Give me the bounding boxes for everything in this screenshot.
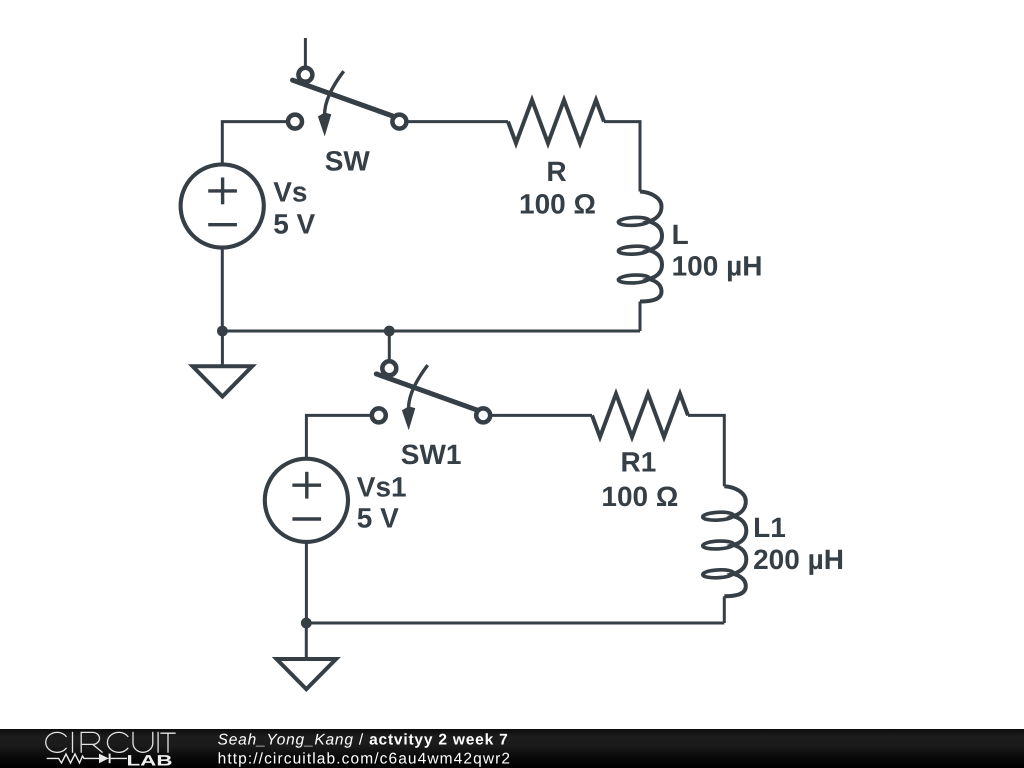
ground G1 bbox=[193, 366, 253, 396]
svg-text:100 Ω: 100 Ω bbox=[519, 189, 596, 220]
svg-text:5 V: 5 V bbox=[273, 209, 315, 240]
wire: resistor R to top-right corner down to inductor L bbox=[604, 122, 640, 192]
svg-text:200 µH: 200 µH bbox=[753, 544, 844, 575]
svg-text:100 Ω: 100 Ω bbox=[601, 481, 678, 512]
wire: inductor L1 to bottom wire bbox=[723, 596, 726, 623]
SW1 actuation arc bbox=[409, 365, 428, 408]
svg-text:R: R bbox=[546, 156, 566, 187]
svg-text:SW: SW bbox=[325, 146, 371, 177]
wire: bottom wire of circuit 2 bbox=[306, 622, 724, 625]
SW1 top terminal circle bbox=[382, 361, 396, 375]
svg-text:Vs: Vs bbox=[273, 176, 307, 207]
svg-text:SW1: SW1 bbox=[401, 439, 462, 470]
SW1 blade bbox=[376, 374, 478, 410]
SW arrowhead bbox=[318, 113, 331, 137]
CircuitLab logo: CIRCUIT bbox=[46, 732, 175, 752]
wire: left horizontal from corner to SW1 left terminal bbox=[306, 415, 371, 459]
wire: Vs1 bottom to node bbox=[305, 542, 308, 623]
SW actuation arc bbox=[325, 71, 344, 114]
ground G1 stem bbox=[221, 331, 224, 366]
svg-text:Vs1: Vs1 bbox=[357, 472, 407, 503]
wire: resistor R1 to corner down to inductor L1 bbox=[688, 415, 724, 486]
ground G2 bbox=[277, 659, 337, 689]
SW1 left terminal circle bbox=[372, 408, 386, 422]
wire: stub above switch SW bbox=[304, 38, 307, 67]
inductor L bbox=[618, 192, 662, 302]
resistor R bbox=[508, 100, 604, 143]
SW1 arrowhead bbox=[402, 406, 415, 430]
logo schematic: wire resistor diode bbox=[47, 754, 127, 764]
wire: Vs bottom to node bbox=[221, 247, 224, 331]
SW blade bbox=[293, 80, 395, 116]
svg-text:LAB: LAB bbox=[127, 753, 173, 768]
wire: node B down to SW1 bbox=[388, 331, 391, 361]
node C (junction dot circuit 2) bbox=[301, 618, 312, 629]
voltage source Vs1 bbox=[265, 459, 348, 542]
switch SW bbox=[288, 68, 406, 137]
ground G2 stem bbox=[305, 623, 308, 659]
wire: SW1 right terminal to resistor R1 bbox=[490, 414, 592, 417]
SW top terminal circle bbox=[298, 68, 312, 82]
wire: bottom wire of circuit 1 bbox=[222, 330, 640, 333]
wire: SW right terminal to resistor R bbox=[406, 120, 508, 123]
resistor R1 bbox=[592, 394, 688, 437]
svg-text:R1: R1 bbox=[621, 447, 657, 478]
switch SW1 bbox=[372, 361, 490, 430]
SW left terminal circle bbox=[288, 115, 302, 129]
footer bar bbox=[0, 729, 1024, 768]
wire: left horizontal from corner to SW left terminal bbox=[222, 122, 287, 165]
node B (junction dot to circuit 2) bbox=[384, 326, 395, 337]
svg-text:http://circuitlab.com/c6au4wm4: http://circuitlab.com/c6au4wm42qwr2 bbox=[218, 750, 512, 767]
svg-text:Seah_Yong_Kang / actvityy 2 we: Seah_Yong_Kang / actvityy 2 week 7 bbox=[218, 731, 509, 748]
svg-text:100 µH: 100 µH bbox=[672, 251, 763, 282]
voltage source Vs bbox=[181, 164, 264, 247]
wire: inductor L to bottom wire bbox=[639, 302, 642, 332]
SW right terminal circle bbox=[392, 115, 406, 129]
inductor L1 bbox=[702, 486, 746, 596]
svg-text:L: L bbox=[672, 219, 689, 250]
SW1 right terminal circle bbox=[476, 408, 490, 422]
svg-text:5 V: 5 V bbox=[357, 503, 399, 534]
node A (junction dot circuit 1) bbox=[217, 326, 228, 337]
svg-text:L1: L1 bbox=[753, 512, 786, 543]
